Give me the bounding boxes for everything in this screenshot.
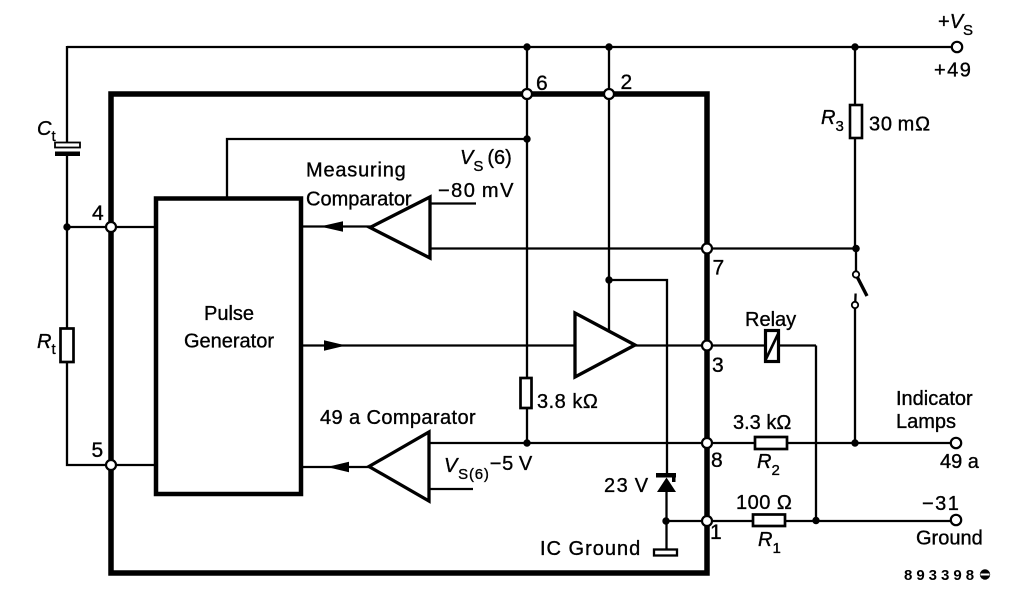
capacitor C_t bbox=[55, 143, 80, 148]
terminal +49 bbox=[952, 42, 962, 52]
wire pin2 stub bbox=[608, 47, 610, 94]
svg-text:7: 7 bbox=[713, 257, 725, 280]
node pin6 top bbox=[523, 43, 530, 50]
wire left vertical to Rt bbox=[66, 227, 68, 329]
wire -5V input stub bbox=[429, 488, 473, 490]
resistor R2 bbox=[755, 437, 787, 449]
svg-text:IC Ground: IC Ground bbox=[540, 538, 641, 560]
wire pulse generator output bbox=[301, 344, 575, 346]
wire switch to 49a rail bbox=[854, 308, 856, 443]
resistor 3.8k bbox=[521, 378, 532, 408]
svg-text:30 mΩ: 30 mΩ bbox=[869, 114, 931, 136]
wire measuring comparator output bbox=[301, 225, 372, 227]
wire pin1 rail to ground terminal bbox=[666, 520, 950, 522]
resistor Rt bbox=[61, 329, 74, 363]
node pin2 branch bbox=[605, 276, 612, 283]
IC ground symbol bbox=[654, 550, 677, 556]
svg-text:3.3 kΩ: 3.3 kΩ bbox=[733, 412, 791, 434]
svg-text:−80 mV: −80 mV bbox=[438, 180, 515, 202]
wire feedback pin6 to pulse generator bbox=[227, 139, 527, 199]
pin 1 bbox=[702, 516, 712, 526]
wire 3.8k to pin8 rail bbox=[526, 408, 528, 443]
node zener pin1 junction bbox=[662, 517, 669, 524]
relay K1 bbox=[766, 331, 779, 362]
node relay junction bbox=[812, 517, 819, 524]
svg-text:893398: 893398 bbox=[904, 567, 978, 584]
op-amp U3 output stage bbox=[575, 313, 635, 377]
svg-text:Ground: Ground bbox=[916, 528, 983, 550]
svg-text:Comparator: Comparator bbox=[306, 189, 412, 211]
svg-text:+49: +49 bbox=[934, 60, 972, 82]
pin 6 bbox=[522, 89, 532, 99]
svg-text:49 a Comparator: 49 a Comparator bbox=[320, 407, 476, 429]
arrowhead into pulse generator lower bbox=[327, 462, 349, 472]
svg-text:8: 8 bbox=[711, 449, 723, 472]
svg-text:23 V: 23 V bbox=[604, 475, 650, 497]
Pulse Generator box U1 bbox=[156, 199, 301, 495]
op-amp U4 49a comparator bbox=[369, 432, 429, 501]
node 49a rail junction bbox=[851, 439, 858, 446]
node 3.8k junction bbox=[523, 439, 530, 446]
pin 2 bbox=[604, 89, 614, 99]
pin 7 bbox=[702, 244, 712, 254]
terminal -31 Ground bbox=[951, 515, 961, 525]
svg-text:Lamps: Lamps bbox=[896, 411, 956, 433]
svg-text:6: 6 bbox=[536, 72, 548, 95]
svg-text:Measuring: Measuring bbox=[306, 160, 407, 182]
wire pin7 rail bbox=[430, 247, 856, 249]
zener diode 23V bbox=[656, 473, 676, 478]
wire -80mV input stub bbox=[430, 202, 476, 204]
terminal 49a bbox=[951, 438, 961, 448]
wire left vertical middle bbox=[66, 156, 68, 227]
pin 8 bbox=[702, 438, 712, 448]
pin 4 bbox=[106, 222, 116, 232]
arrowhead pulse output bbox=[324, 340, 346, 350]
pin 5 bbox=[106, 460, 116, 470]
wire top supply rail bbox=[67, 46, 951, 48]
op-amp U2 measuring comparator bbox=[370, 197, 430, 258]
wire pin6 stub bbox=[526, 47, 528, 94]
svg-text:4: 4 bbox=[92, 202, 104, 225]
node pin2 top bbox=[605, 43, 612, 50]
svg-text:49 a: 49 a bbox=[940, 451, 980, 473]
wire left vertical upper bbox=[66, 46, 68, 143]
svg-text:−31: −31 bbox=[922, 493, 960, 515]
svg-text:Relay: Relay bbox=[745, 309, 796, 331]
wire branch to zener bbox=[609, 280, 667, 473]
wire R3 upper bbox=[854, 47, 856, 105]
node pin7 rail junction bbox=[852, 245, 860, 253]
wire pin2 inner vertical bbox=[608, 94, 610, 331]
svg-text:Pulse: Pulse bbox=[204, 303, 254, 325]
wire zener to ground bbox=[665, 492, 667, 551]
wire 49a comparator output bbox=[301, 466, 371, 468]
pin 3 bbox=[702, 341, 712, 351]
wire left vertical lower bbox=[67, 362, 156, 465]
wire relay to pin1 rail bbox=[815, 346, 817, 521]
svg-text:5: 5 bbox=[92, 439, 104, 462]
switch S1 bbox=[855, 249, 857, 271]
IC block border bbox=[111, 94, 707, 573]
wire pin6 inner vertical bbox=[526, 94, 528, 378]
wire op-amp output to relay bbox=[635, 344, 816, 346]
node R3 top bbox=[851, 43, 858, 50]
svg-text:100 Ω: 100 Ω bbox=[736, 492, 792, 514]
svg-text:Indicator: Indicator bbox=[896, 388, 973, 410]
svg-text:2: 2 bbox=[621, 71, 633, 94]
node junction left bbox=[63, 223, 70, 230]
wire pin4 horizontal bbox=[67, 226, 156, 228]
svg-text:1: 1 bbox=[710, 521, 722, 544]
wire pin8 rail to 49a terminal bbox=[429, 442, 950, 444]
svg-text:3: 3 bbox=[712, 354, 724, 377]
svg-text:3.8 kΩ: 3.8 kΩ bbox=[537, 391, 598, 413]
resistor R1 bbox=[753, 515, 785, 527]
resistor R3 bbox=[850, 105, 862, 138]
arrowhead into pulse generator bbox=[320, 221, 343, 231]
node feedback junction bbox=[523, 135, 530, 142]
wire R3 lower bbox=[854, 138, 856, 249]
svg-text:Generator: Generator bbox=[184, 331, 274, 353]
